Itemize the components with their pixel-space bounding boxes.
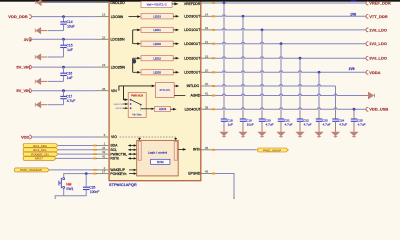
- wire PONKEYn net: [64, 174, 95, 178]
- PWR MUX block: [128, 93, 146, 118]
- wire VIO dashed: [120, 136, 176, 138]
- svg-text:RSTn: RSTn: [110, 157, 119, 161]
- switch SW1 (NM): [59, 178, 74, 191]
- node VREF_DDR junction: [223, 2, 226, 5]
- ground (C15): [35, 53, 47, 60]
- wire VDD_DDR: [32, 16, 96, 18]
- svg-text:SW1: SW1: [66, 187, 73, 191]
- svg-text:Vin Max: Vin Max: [132, 113, 142, 117]
- svg-text:INTLDO: INTLDO: [160, 88, 171, 92]
- node 3V3 junction: [62, 38, 65, 41]
- port VDDA: [366, 70, 381, 75]
- capacitor C25: [351, 109, 366, 126]
- wire VDDA vertical: [318, 72, 320, 109]
- svg-text:PWR MUX: PWR MUX: [131, 94, 143, 97]
- wire LDO1 output arrow: [173, 29, 175, 31]
- svg-text:LDO5: LDO5: [153, 70, 161, 74]
- ground (C21): [276, 127, 285, 138]
- svg-text:NVM: NVM: [157, 160, 164, 164]
- node VDD_DDR junction: [62, 15, 65, 18]
- svg-text:STPMIC1APQR: STPMIC1APQR: [109, 183, 137, 187]
- port 1V2_LDO: [366, 41, 387, 46]
- wire INTn net: [215, 149, 257, 151]
- svg-text:45: 45: [205, 146, 209, 150]
- svg-text:LDO2OUT: LDO2OUT: [184, 56, 200, 60]
- wire POWER_ON: [58, 153, 95, 155]
- node PONKEYn junction: [85, 172, 88, 175]
- pin 43 PWRCTRL: [96, 150, 109, 154]
- ground (AGND arrow): [363, 92, 374, 100]
- top screenshot strip: [0, 0, 400, 2]
- svg-text:LDO6: LDO6: [153, 42, 161, 46]
- node 1V2_LDO junction: [280, 42, 283, 45]
- svg-text:1uF: 1uF: [67, 76, 73, 80]
- svg-text:VREF_DDR: VREF_DDR: [369, 1, 391, 6]
- pin 1V8_LDO: [201, 26, 215, 31]
- svg-text:21: 21: [205, 40, 209, 44]
- svg-text:LDO16IN: LDO16IN: [111, 38, 126, 42]
- ground (C23): [314, 127, 323, 138]
- ground (C19): [238, 127, 247, 138]
- svg-text:2V9: 2V9: [349, 67, 355, 71]
- pin 3V3_LDO: [201, 54, 215, 59]
- svg-text:INTn: INTn: [193, 148, 200, 152]
- capacitor C19: [240, 109, 254, 126]
- node 3V3_LDO junction: [299, 57, 302, 60]
- port VTT_DDR: [366, 14, 388, 19]
- capacitor C22: [297, 109, 312, 126]
- svg-text:LDO6OUT: LDO6OUT: [184, 42, 200, 46]
- svg-text:EPGND: EPGND: [188, 171, 201, 175]
- capacitor C16: [63, 67, 65, 73]
- wire Vref arrow: [174, 2, 178, 5]
- port VDD: [21, 135, 31, 140]
- svg-text:49: 49: [205, 170, 209, 174]
- pin 49 EPGND: [201, 170, 215, 175]
- wire INTLDO net: [215, 85, 335, 87]
- wire WAKEUP arrow: [129, 169, 134, 171]
- svg-text:1V2_LDO: 1V2_LDO: [369, 41, 387, 46]
- wire 5V_VIN: [32, 66, 96, 68]
- svg-text:5V_VIN: 5V_VIN: [16, 65, 30, 70]
- wire PWR MUX input 3: [123, 107, 126, 109]
- svg-text:LDO25IN: LDO25IN: [111, 65, 126, 69]
- svg-text:LDO3OUT: LDO3OUT: [184, 15, 200, 19]
- svg-text:5V_VIN: 5V_VIN: [16, 88, 30, 93]
- wire 1V8_LDO: [215, 28, 366, 29]
- port VREF_DDR: [366, 1, 391, 6]
- pin 41 AGND: [201, 92, 215, 97]
- INTLDO block: [156, 83, 175, 98]
- svg-text:4.7uF: 4.7uF: [323, 123, 331, 127]
- capacitor C23: [316, 109, 331, 126]
- svg-text:13: 13: [102, 13, 106, 17]
- svg-text:3V3_LDO: 3V3_LDO: [369, 56, 387, 61]
- port 3V3_LDO: [366, 56, 387, 61]
- wire C14 to ground: [48, 30, 64, 32]
- node VDDA junction: [318, 71, 321, 74]
- wire C17 to ground: [48, 104, 64, 106]
- wire LDO5 output arrow: [173, 71, 175, 73]
- svg-text:LDO1: LDO1: [153, 28, 161, 32]
- wire PONKEYn arrow: [129, 173, 134, 175]
- svg-text:PONKEYn: PONKEYn: [110, 172, 126, 176]
- regulator block LDO1: [141, 27, 173, 32]
- wire C15 to ground: [48, 56, 64, 58]
- pin 17 PONKEYn: [96, 170, 109, 174]
- wire 1V2_LDO vertical: [280, 44, 282, 110]
- wire 3V3_LDO: [215, 57, 366, 58]
- ground (GNDLDO): [36, 0, 48, 6]
- svg-text:PMIC_WKUP: PMIC_WKUP: [263, 148, 281, 152]
- pin 36 VIN: [96, 87, 109, 91]
- svg-text:INTLDO: INTLDO: [187, 84, 200, 88]
- capacitor C24: [332, 109, 347, 126]
- pin 1 SDA: [96, 142, 109, 146]
- svg-text:4.7uF: 4.7uF: [67, 99, 75, 103]
- net flag PMIC_WAKEUP: [14, 168, 49, 172]
- svg-text:VDDA: VDDA: [369, 70, 380, 75]
- svg-text:22: 22: [102, 35, 106, 39]
- port 5V_VIN (VIN): [16, 88, 31, 93]
- regulator block LDO5: [141, 70, 173, 75]
- net flag I2C4_SDA: [23, 144, 58, 148]
- wire VTT_DDR: [215, 15, 366, 16]
- wire NRST: [56, 157, 95, 159]
- svg-text:Vref = VOUT2 / 2: Vref = VOUT2 / 2: [147, 3, 167, 7]
- pin VDDA: [201, 68, 215, 73]
- wire LDO3 input arrow: [129, 16, 138, 18]
- svg-text:10uF: 10uF: [247, 123, 254, 127]
- wire LDO4 output arrow: [170, 108, 173, 110]
- capacitor C15: [63, 39, 65, 45]
- svg-text:Logic / control: Logic / control: [148, 151, 168, 155]
- pin 19 LDO25IN: [96, 63, 109, 67]
- svg-text:1V8_LDO: 1V8_LDO: [369, 27, 387, 32]
- wire EPGND: [215, 174, 234, 197]
- svg-text:VTT_DDR: VTT_DDR: [369, 14, 388, 19]
- svg-text:LDO4OUT: LDO4OUT: [185, 107, 201, 111]
- wire VREF_DDR: [215, 2, 366, 4]
- svg-text:39: 39: [205, 105, 209, 109]
- svg-text:SWOUT: SWOUT: [116, 108, 124, 110]
- wire RSTn arrow: [130, 157, 134, 159]
- wire AGND net: [215, 94, 364, 96]
- wire VIN internal: [119, 86, 152, 91]
- wire PWRCTRL arrow: [130, 153, 134, 155]
- wire GNDLDO: [48, 2, 96, 4]
- svg-text:40: 40: [205, 82, 209, 86]
- svg-text:23: 23: [205, 26, 209, 30]
- svg-text:4.7uF: 4.7uF: [339, 123, 347, 127]
- wire 1V2_LDO: [215, 42, 366, 43]
- pin VREF_DDR: [201, 2, 215, 4]
- ground (EPGND, cut off): [233, 197, 235, 200]
- node 5V_VIN 2 junction: [62, 89, 65, 92]
- regulator block LDO2: [141, 56, 173, 61]
- svg-text:NRST: NRST: [35, 157, 43, 161]
- ground (C24): [331, 127, 340, 138]
- svg-text:VIN: VIN: [111, 89, 117, 93]
- wire LDO16IN branch: [132, 30, 134, 44]
- net flag I2C4_SCL: [23, 148, 58, 152]
- wire SCL arrow: [130, 149, 134, 151]
- svg-text:LDO5OUT: LDO5OUT: [184, 71, 200, 75]
- port 3V3: [24, 37, 32, 42]
- wire INTLDO output arrow: [174, 85, 176, 87]
- ground (C18): [219, 127, 228, 138]
- wire 3V3: [32, 38, 96, 40]
- regulator block LDO3: [141, 14, 173, 19]
- wire LDO6 output arrow: [173, 43, 175, 45]
- ground (C14): [35, 27, 47, 34]
- ground (C20): [257, 127, 266, 138]
- wire C16 to ground: [48, 80, 64, 82]
- wire I2C4_SCL: [58, 149, 95, 151]
- port 5V_VIN (LDO25IN): [16, 65, 31, 70]
- pin 2 WAKEUP: [96, 166, 109, 170]
- svg-text:4.7uF: 4.7uF: [304, 123, 312, 127]
- port VDD_USB: [366, 107, 388, 112]
- svg-text:36: 36: [102, 87, 106, 91]
- wire PWR MUX input 2: [123, 103, 126, 105]
- port 1V8_LDO: [366, 27, 387, 32]
- pin 42 RSTn: [96, 155, 109, 159]
- capacitor C21: [278, 109, 293, 126]
- pin VTT_DDR: [201, 12, 215, 17]
- capacitor C14: [63, 17, 65, 22]
- wire VDD: [32, 136, 96, 138]
- port VDD_DDR: [8, 14, 31, 19]
- wire VDDA: [215, 71, 366, 73]
- wire SDA arrow: [130, 145, 134, 147]
- svg-text:VREFDDR: VREFDDR: [184, 2, 201, 6]
- svg-text:LDO4: LDO4: [159, 107, 167, 111]
- svg-text:VDD: VDD: [21, 135, 30, 140]
- svg-text:VBUSOTG: VBUSOTG: [114, 104, 123, 106]
- svg-text:LDO2: LDO2: [153, 56, 161, 60]
- wire SW1 bottom: [55, 188, 64, 199]
- svg-text:100nF: 100nF: [90, 190, 99, 194]
- regulator block LDO4: [141, 108, 152, 110]
- svg-text:4.7uF: 4.7uF: [266, 123, 274, 127]
- wire 3V3_LDO vertical: [299, 58, 301, 109]
- node VDD_USB junction: [353, 108, 356, 111]
- wire LDO3 output arrow: [173, 15, 175, 17]
- wire 5V_VIN 2: [32, 90, 96, 92]
- regulator block LDO6: [141, 41, 173, 46]
- capacitor C17: [63, 91, 65, 97]
- svg-text:LDO3IN: LDO3IN: [111, 15, 124, 19]
- svg-text:10uF: 10uF: [67, 25, 75, 29]
- svg-text:LDO1OUT: LDO1OUT: [184, 28, 200, 32]
- Vref box (Vref = VOUT2 / 2): [141, 1, 172, 7]
- wire AGND: [174, 95, 185, 97]
- ground (C22): [295, 127, 304, 138]
- capacitor C26: [85, 174, 87, 188]
- ground (C25): [349, 127, 358, 138]
- pin 6 VIO: [96, 133, 109, 137]
- wire PMIC_WAKEUP: [50, 169, 96, 171]
- svg-text:4.7uF: 4.7uF: [285, 123, 293, 127]
- wire 1V8_LDO vertical: [261, 30, 263, 109]
- svg-text:17: 17: [102, 170, 106, 174]
- node 5V_VIN junction: [62, 66, 65, 69]
- node 1V8_LDO junction: [261, 29, 264, 32]
- node VTT_DDR junction: [242, 15, 245, 18]
- wire LDO2 output arrow: [173, 57, 175, 59]
- svg-text:41: 41: [205, 92, 209, 96]
- ground (C17): [35, 101, 47, 108]
- capacitor C20: [259, 109, 274, 126]
- svg-text:LDO3: LDO3: [153, 14, 161, 18]
- svg-text:19: 19: [102, 63, 106, 67]
- pin 22 LDO16IN: [96, 35, 109, 39]
- chip U2 STPMIC1APQR body: [109, 0, 201, 181]
- net flag NRST: [23, 156, 56, 160]
- svg-text:PMIC_WAKEUP: PMIC_WAKEUP: [20, 168, 42, 172]
- svg-text:1uF: 1uF: [228, 123, 233, 127]
- svg-text:18: 18: [205, 54, 209, 58]
- wire I2C4_SDA: [58, 145, 95, 147]
- pin 40 INTLDO: [201, 82, 215, 87]
- svg-text:VIO: VIO: [111, 135, 117, 139]
- net flag POWER_ON: [23, 152, 58, 156]
- capacitor C18: [221, 109, 233, 126]
- ground (C16): [35, 78, 47, 85]
- wire VTT_DDR vertical: [242, 16, 244, 109]
- svg-text:GNDLDO: GNDLDO: [110, 1, 125, 5]
- svg-text:VDD_DDR: VDD_DDR: [8, 14, 27, 19]
- svg-text:4.7uF: 4.7uF: [358, 123, 366, 127]
- svg-text:VDD_USB: VDD_USB: [369, 107, 388, 112]
- svg-text:AGND: AGND: [191, 94, 201, 98]
- pin 13 LDO3IN: [96, 13, 109, 17]
- svg-text:1uF: 1uF: [67, 48, 73, 52]
- wire INTn arrow: [178, 148, 183, 150]
- pin 1V2_LDO: [201, 40, 215, 45]
- label net (cut): [351, 0, 357, 1]
- wire VDD_USB: [215, 108, 366, 109]
- net flag PMIC_WKUP: [257, 148, 288, 152]
- pin 12 GNDLDO: [96, 2, 109, 4]
- svg-text:20: 20: [205, 68, 209, 72]
- wire LDO25IN branch: [132, 59, 136, 64]
- NVM block: [151, 159, 170, 164]
- pin 39 LDO4OUT: [201, 105, 215, 110]
- Logic / control block: [137, 140, 179, 176]
- wire VREF_DDR vertical: [223, 3, 225, 109]
- pin 44 SCL: [96, 146, 109, 150]
- svg-text:14: 14: [205, 12, 209, 16]
- wire VIN to PWR MUX: [124, 86, 126, 100]
- svg-text:1V8: 1V8: [350, 12, 356, 16]
- pin 45 INTn: [201, 146, 215, 151]
- svg-text:42: 42: [102, 155, 106, 159]
